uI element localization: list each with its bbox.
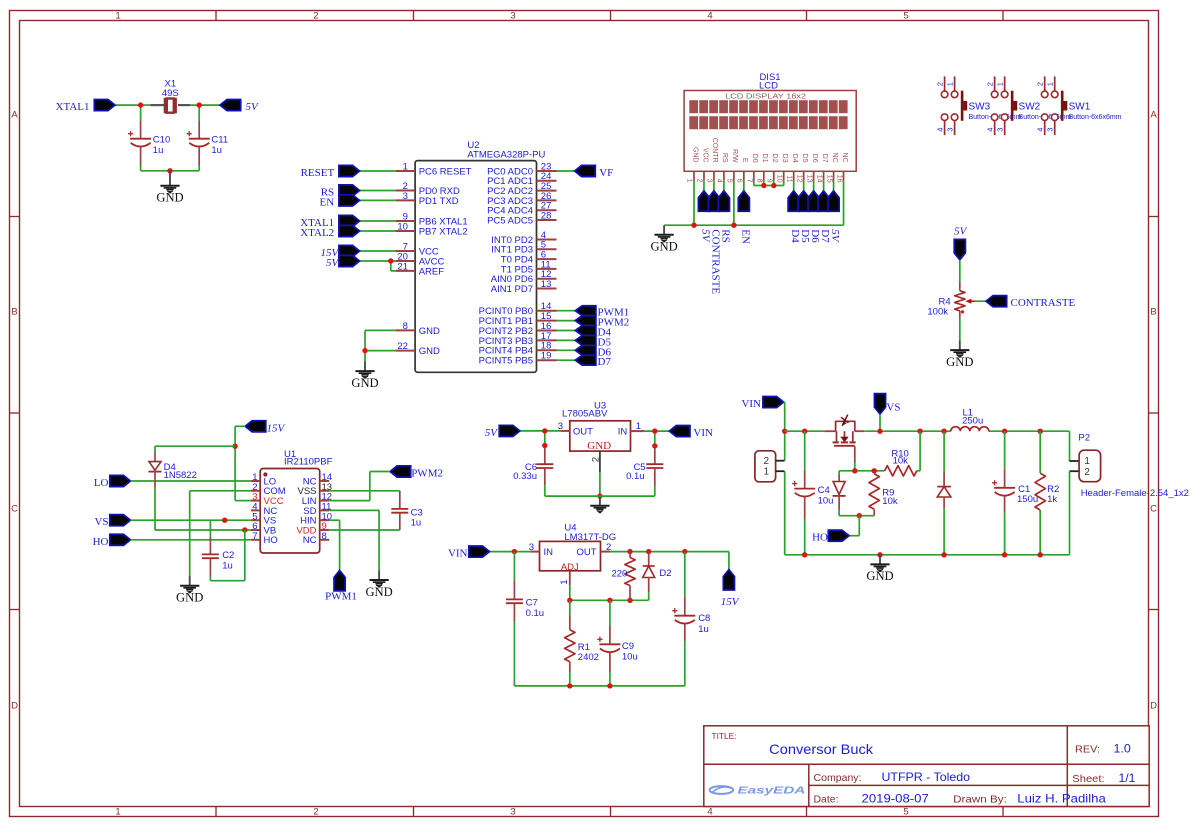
svg-text:19: 19 [541,351,552,362]
svg-text:EN: EN [320,196,335,208]
svg-text:4: 4 [985,128,994,132]
svg-text:C4: C4 [818,485,830,496]
svg-text:CONTR: CONTR [711,138,718,163]
svg-text:PC5 ADC5: PC5 ADC5 [487,215,533,226]
svg-text:RESET: RESET [301,167,335,179]
svg-text:8: 8 [322,531,327,542]
svg-text:GND: GND [351,376,378,390]
svg-text:150u: 150u [1017,494,1038,505]
svg-text:4: 4 [707,10,712,21]
svg-text:10k: 10k [882,496,898,507]
svg-text:XTAL1: XTAL1 [56,101,90,113]
svg-text:GND: GND [419,346,440,357]
svg-text:21: 21 [397,261,408,272]
svg-text:2: 2 [985,82,994,86]
svg-text:RS: RS [721,153,728,163]
svg-text:1: 1 [636,421,641,432]
svg-text:C9: C9 [622,641,634,652]
svg-text:A: A [1150,110,1157,121]
svg-text:13: 13 [541,279,552,290]
svg-text:SW3: SW3 [969,102,991,113]
svg-text:EasyEDA: EasyEDA [738,784,806,796]
svg-text:3: 3 [945,128,954,132]
svg-text:1u: 1u [222,561,233,572]
svg-text:5: 5 [903,10,908,21]
svg-text:GND: GND [946,355,973,369]
svg-text:GND: GND [691,147,698,163]
svg-text:220: 220 [611,569,627,580]
svg-text:VCC: VCC [701,148,708,163]
svg-text:1/1: 1/1 [1119,771,1136,785]
svg-text:PCINT5 PB5: PCINT5 PB5 [479,356,533,367]
svg-text:5V: 5V [954,225,968,237]
svg-text:Company:: Company: [814,772,862,784]
svg-text:A: A [11,110,18,121]
svg-text:5V: 5V [246,101,260,113]
svg-text:GND: GND [587,440,611,452]
svg-text:28: 28 [541,210,552,221]
svg-text:1u: 1u [411,518,422,529]
svg-text:OUT: OUT [573,426,593,437]
svg-text:GND: GND [650,240,677,254]
svg-text:D3: D3 [781,154,788,163]
svg-text:5V: 5V [326,257,340,269]
svg-text:D2: D2 [771,154,778,163]
svg-text:3: 3 [995,128,1004,132]
svg-text:D: D [1150,701,1157,712]
svg-text:3: 3 [510,807,515,818]
svg-text:1: 1 [403,161,408,172]
svg-text:AIN1 PD7: AIN1 PD7 [491,284,533,295]
svg-text:IN: IN [544,547,554,558]
svg-text:TITLE:: TITLE: [712,731,737,741]
svg-text:R/W: R/W [731,149,738,163]
svg-text:D4: D4 [791,154,798,163]
svg-text:LCD DISPLAY 16x2: LCD DISPLAY 16x2 [725,91,806,100]
svg-text:D7: D7 [598,356,612,368]
svg-text:49S: 49S [162,88,179,99]
svg-text:Header-Female-2.54_1x2: Header-Female-2.54_1x2 [1081,488,1189,499]
svg-text:L7805ABV: L7805ABV [562,409,608,420]
svg-text:4: 4 [935,128,944,132]
svg-text:4: 4 [707,807,712,818]
svg-text:SW1: SW1 [1069,102,1091,113]
svg-text:1: 1 [115,807,120,818]
svg-text:1: 1 [945,82,954,86]
svg-text:GND: GND [419,326,440,337]
svg-text:0.1u: 0.1u [526,608,545,619]
svg-text:1k: 1k [1047,494,1057,505]
svg-text:10: 10 [397,221,408,232]
svg-text:250u: 250u [962,415,983,426]
svg-text:VF: VF [599,167,613,179]
svg-text:1u: 1u [211,145,222,156]
svg-text:1: 1 [764,466,770,477]
svg-text:2: 2 [313,807,318,818]
svg-text:C7: C7 [526,598,538,609]
svg-text:Conversor Buck: Conversor Buck [769,741,874,757]
svg-text:1u: 1u [153,145,164,156]
svg-text:D2: D2 [659,568,671,579]
svg-text:7: 7 [252,531,257,542]
svg-text:B: B [11,307,17,318]
svg-text:OUT: OUT [576,547,596,558]
svg-text:2402: 2402 [578,652,599,663]
svg-text:C11: C11 [211,135,228,146]
svg-text:AREF: AREF [419,266,445,277]
svg-text:NC: NC [831,152,838,162]
svg-text:1N5822: 1N5822 [164,470,197,481]
svg-text:10u: 10u [622,651,638,662]
svg-text:10k: 10k [893,456,909,467]
svg-text:HO: HO [93,536,109,548]
svg-text:GND: GND [176,591,203,605]
svg-text:GND: GND [156,191,183,205]
svg-text:PB7 XTAL2: PB7 XTAL2 [419,226,468,237]
svg-text:15V: 15V [267,422,286,434]
svg-text:D0: D0 [751,154,758,163]
svg-text:1.0: 1.0 [1114,742,1132,756]
svg-text:HO: HO [264,535,278,546]
svg-text:1: 1 [115,10,120,21]
svg-text:8: 8 [403,321,408,332]
svg-text:C: C [1150,504,1157,515]
svg-text:Button-6x6x6mm: Button-6x6x6mm [1069,114,1122,121]
svg-text:Drawn By:: Drawn By: [953,794,1007,806]
svg-text:D7: D7 [821,154,828,163]
svg-text:2019-08-07: 2019-08-07 [862,792,930,806]
svg-text:15V: 15V [721,596,740,608]
svg-text:D1: D1 [761,154,768,163]
svg-text:Sheet:: Sheet: [1072,773,1104,785]
svg-text:B: B [1150,307,1156,318]
svg-text:NC: NC [303,535,317,546]
svg-text:C: C [11,504,18,515]
svg-text:C2: C2 [222,550,234,561]
svg-text:0.1u: 0.1u [626,471,645,482]
svg-text:VIN: VIN [448,548,468,560]
svg-text:P2: P2 [1078,432,1090,443]
svg-text:2: 2 [590,457,601,462]
svg-text:2: 2 [1036,82,1045,86]
svg-text:XTAL2: XTAL2 [300,227,334,239]
svg-text:2: 2 [1084,467,1090,478]
svg-text:VIN: VIN [741,398,761,410]
svg-text:1u: 1u [698,624,709,635]
svg-text:E: E [741,158,748,163]
svg-text:HO: HO [812,532,828,544]
svg-text:10u: 10u [818,496,834,507]
svg-text:LO: LO [94,477,109,489]
svg-text:RS: RS [719,229,731,242]
svg-text:100k: 100k [927,306,948,317]
svg-text:UTFPR - Toledo: UTFPR - Toledo [882,770,971,784]
svg-text:5: 5 [903,807,908,818]
svg-text:4: 4 [1036,128,1045,132]
svg-text:PWM1: PWM1 [325,591,357,603]
svg-text:22: 22 [397,341,408,352]
svg-text:D5: D5 [801,154,808,163]
svg-text:2: 2 [935,82,944,86]
svg-text:EN: EN [739,229,751,244]
svg-text:0.33u: 0.33u [513,471,537,482]
svg-text:VS: VS [886,402,900,414]
svg-text:PWM2: PWM2 [411,468,443,480]
svg-text:1: 1 [559,580,570,585]
svg-text:1: 1 [1046,82,1055,86]
svg-text:IN: IN [618,426,628,437]
svg-text:ATMEGA328P-PU: ATMEGA328P-PU [467,149,545,160]
svg-text:VS: VS [94,516,108,528]
svg-text:CONTRASTE: CONTRASTE [1011,297,1076,309]
svg-text:Date:: Date: [814,794,839,806]
svg-text:VIN: VIN [693,427,713,439]
svg-text:1: 1 [995,82,1004,86]
svg-text:SW2: SW2 [1019,102,1041,113]
svg-text:Luiz H. Padilha: Luiz H. Padilha [1017,792,1106,806]
svg-text:REV:: REV: [1075,744,1100,756]
svg-text:C10: C10 [153,135,170,146]
svg-text:1: 1 [1084,456,1090,467]
svg-text:GND: GND [365,585,392,599]
svg-text:D: D [11,701,18,712]
svg-text:D6: D6 [811,154,818,163]
svg-text:NC: NC [841,152,848,162]
svg-text:3: 3 [1046,128,1055,132]
svg-text:3: 3 [403,191,408,202]
svg-text:PD1 TXD: PD1 TXD [419,196,459,207]
svg-text:PC6 RESET: PC6 RESET [419,166,472,177]
svg-text:5V: 5V [829,229,841,243]
svg-text:2: 2 [313,10,318,21]
svg-text:3: 3 [510,10,515,21]
svg-text:5V: 5V [485,427,499,439]
svg-text:IR2110PBF: IR2110PBF [284,456,333,467]
svg-text:GND: GND [866,569,893,583]
svg-text:C8: C8 [698,613,710,624]
